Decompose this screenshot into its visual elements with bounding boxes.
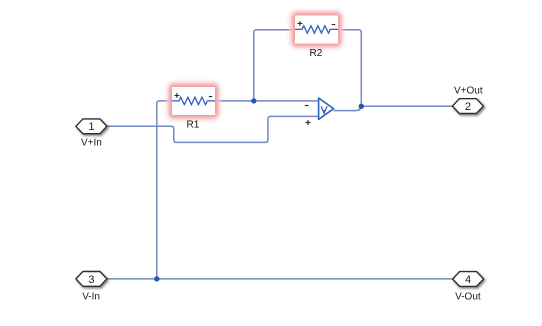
op-amp + input pin label: [306, 120, 311, 125]
op-amp - input pin label: [305, 105, 309, 107]
highlight glow around resistor R2: [290, 11, 343, 49]
svg-text:4: 4: [465, 274, 471, 286]
node C junction dot (bottom rail): [154, 276, 159, 281]
node B junction dot (op-amp output): [359, 104, 364, 109]
svg-text:V+In: V+In: [81, 137, 102, 148]
op-amp U1 triangle: [319, 98, 334, 119]
wire from resistor R1 right terminal to op-amp - input: [215, 100, 319, 102]
wire from resistor R2 right terminal down to output node B: [338, 30, 361, 107]
svg-text:V+Out: V+Out: [454, 85, 483, 96]
svg-text:R1: R1: [187, 119, 200, 130]
output port 2 hexagon: [452, 99, 483, 114]
svg-text:V-In: V-In: [82, 292, 100, 303]
input port 3 hexagon: [76, 272, 107, 287]
svg-text:R2: R2: [310, 48, 323, 59]
input port 1 hexagon: [76, 119, 107, 134]
resistor R2 body: [295, 16, 338, 44]
resistor R1 - polarity mark: [209, 96, 212, 98]
resistor R1 body: [172, 87, 215, 115]
svg-text:1: 1: [88, 121, 94, 133]
node A junction dot (R1 output / feedback): [251, 98, 256, 103]
wire from bottom rail junction up to resistor R1 left terminal: [157, 101, 172, 279]
resistor R2 + polarity mark: [298, 21, 303, 26]
highlight glow around resistor R1: [167, 82, 220, 120]
wire from port 1 V+In to op-amp + input: [107, 116, 319, 142]
wire op-amp output stub to node B: [334, 105, 362, 110]
resistor R1 + polarity mark: [175, 93, 180, 98]
resistor R2 - polarity mark: [332, 24, 335, 26]
wire from node A up to resistor R2 left terminal: [254, 30, 295, 101]
output port 4 hexagon: [453, 272, 484, 287]
svg-text:V-Out: V-Out: [455, 292, 481, 303]
wire from node B to port 2 V+Out: [361, 105, 452, 107]
svg-text:3: 3: [88, 274, 94, 286]
svg-text:2: 2: [465, 101, 471, 113]
wire bottom rail from port 3 V-In to port 4 V-Out: [107, 278, 453, 280]
